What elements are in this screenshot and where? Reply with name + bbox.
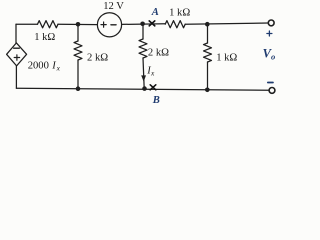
svg-text:1 kΩ: 1 kΩ — [216, 53, 237, 64]
node A cross marker (X on top rail) — [149, 21, 155, 26]
wire top rail V1 to node — [122, 23, 166, 26]
wire branch 3 upper stub — [207, 24, 209, 43]
junction dot top of branch 2 — [140, 22, 145, 27]
junction dot bottom of branch 2 — [142, 86, 147, 91]
source V1 minus sign — [111, 24, 116, 26]
svg-text:1 kΩ: 1 kΩ — [34, 32, 55, 43]
output polarity plus — [267, 31, 272, 36]
terminal top-right (open circle) — [268, 20, 274, 26]
wire branch 1 lower stub — [77, 60, 79, 89]
node B cross marker (X on bottom rail) — [150, 85, 156, 90]
svg-text:12 V: 12 V — [103, 1, 124, 12]
svg-text:B: B — [152, 95, 160, 106]
svg-text:x: x — [150, 69, 155, 78]
resistor R5 1 kΩ (vertical branch 3) — [204, 43, 212, 62]
wire branch 2 lower stub with current Ix direction — [143, 58, 144, 89]
terminal bottom-right (open circle) — [269, 88, 275, 94]
wire left rail upper (corner to diamond) — [15, 24, 17, 43]
dependent source E1 2000 Ix (diamond) — [7, 43, 27, 66]
junction dot bottom of branch 3 — [205, 88, 210, 93]
svg-text:2 kΩ: 2 kΩ — [148, 48, 169, 59]
wire top rail left segment — [16, 23, 38, 25]
junction dot top of branch 1 — [76, 22, 81, 27]
resistor R3 2 kΩ (vertical branch 1) — [74, 41, 82, 60]
resistor R1 1 kΩ (top left horizontal) — [38, 21, 59, 28]
wire top rail R1 to source V1 — [58, 23, 97, 25]
resistor R4 2 kΩ (vertical branch 2) — [139, 39, 147, 58]
wire bottom rail — [16, 88, 269, 90]
output polarity minus — [268, 82, 273, 84]
resistor R2 1 kΩ (top right horizontal) — [165, 21, 185, 28]
junction dot top of branch 3 — [205, 22, 210, 27]
wire top rail R2 to top-right terminal — [185, 23, 268, 24]
voltage source V1 12 V (circle) — [97, 13, 121, 37]
svg-text:I: I — [51, 61, 56, 72]
junction dot bottom of branch 1 — [76, 86, 81, 91]
svg-text:x: x — [56, 64, 61, 73]
wire left rail lower (diamond to bottom corner) — [15, 66, 17, 88]
current arrow Ix (on branch 2, pointing down) — [141, 75, 146, 81]
wire branch 3 lower stub — [207, 62, 209, 90]
svg-text:A: A — [151, 7, 159, 18]
svg-text:1 kΩ: 1 kΩ — [169, 7, 190, 18]
source E1 minus sign (inside diamond, top) — [14, 47, 20, 49]
svg-text:o: o — [271, 52, 275, 62]
wire branch 1 upper stub — [77, 24, 79, 41]
source V1 plus sign — [101, 22, 106, 27]
wire branch 2 upper stub — [142, 24, 144, 39]
source E1 plus sign (inside diamond, bottom) — [14, 55, 19, 60]
svg-text:2 kΩ: 2 kΩ — [87, 53, 108, 64]
svg-text:2000: 2000 — [28, 61, 49, 72]
